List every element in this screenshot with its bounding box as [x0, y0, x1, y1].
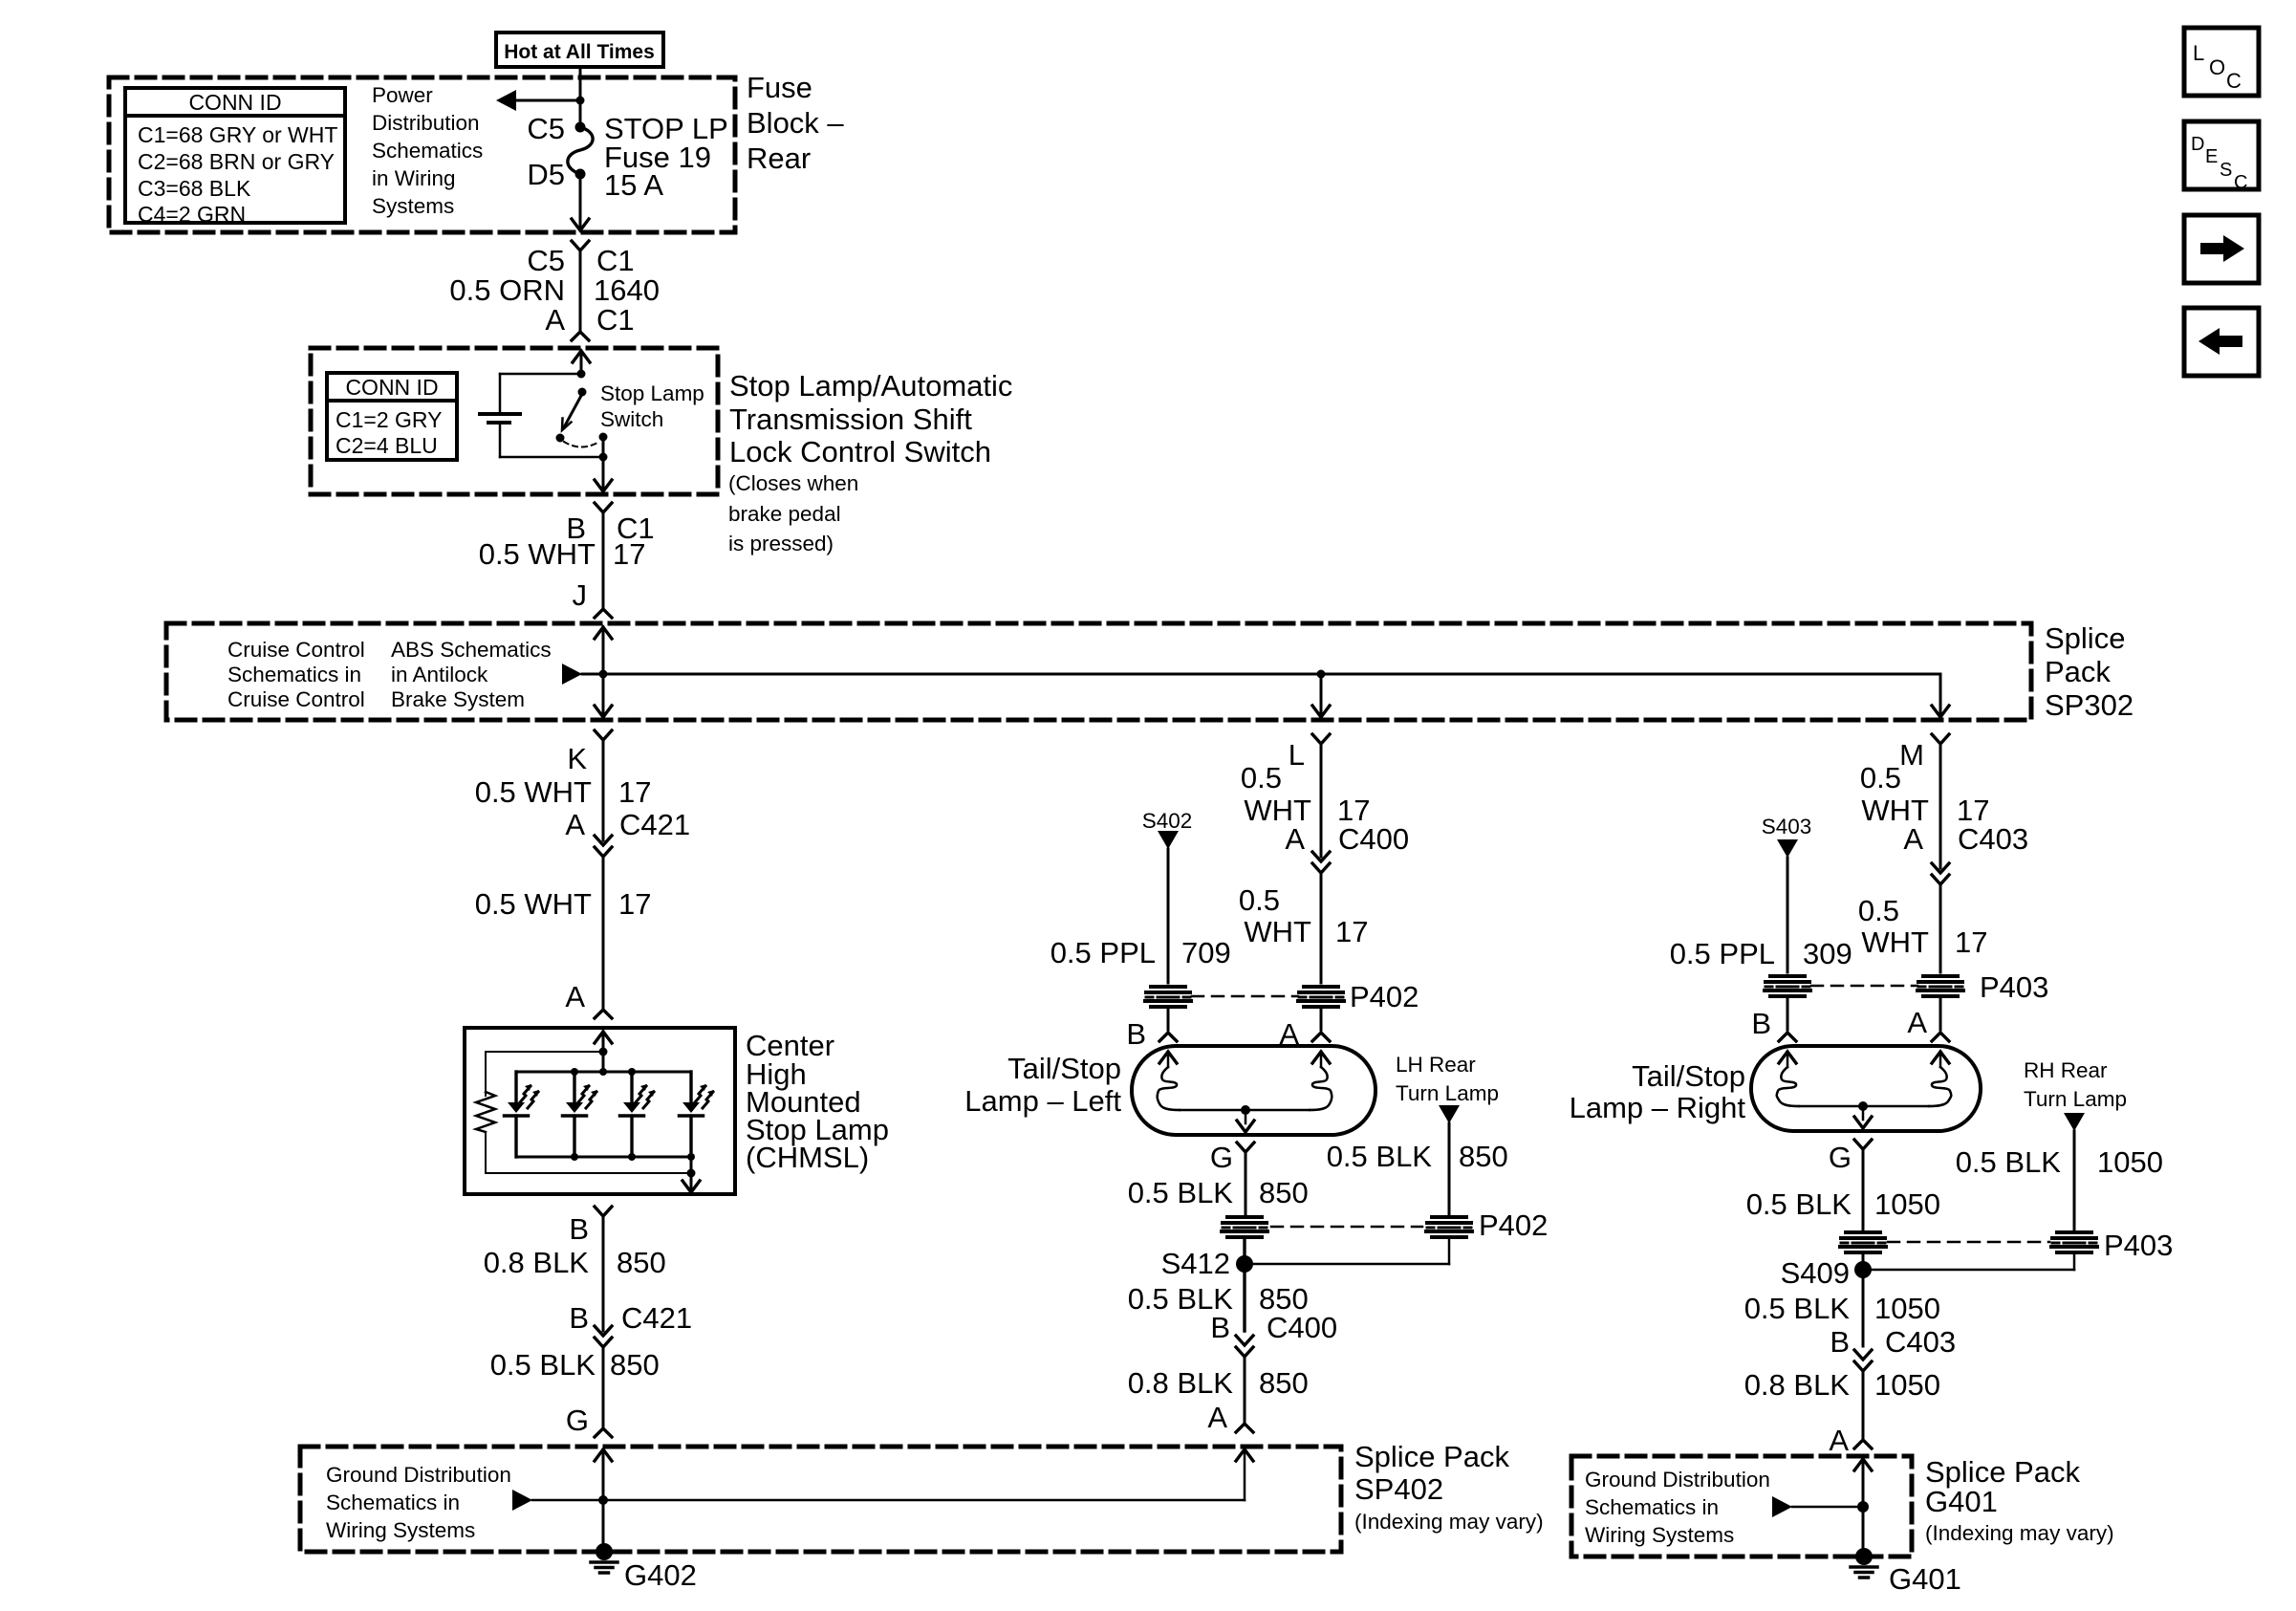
svg-text:B: B	[1751, 1007, 1771, 1040]
svg-text:0.8 BLK: 0.8 BLK	[1128, 1366, 1234, 1400]
svg-text:Switch: Switch	[600, 407, 663, 431]
svg-text:SP402: SP402	[1354, 1472, 1443, 1506]
svg-text:K: K	[567, 742, 587, 775]
svg-text:G402: G402	[624, 1558, 697, 1592]
svg-text:Cruise Control: Cruise Control	[227, 638, 365, 662]
svg-text:309: 309	[1803, 937, 1852, 970]
svg-text:0.8 BLK: 0.8 BLK	[484, 1246, 590, 1279]
svg-text:0.5 PPL: 0.5 PPL	[1051, 936, 1156, 969]
svg-text:C403: C403	[1958, 822, 2028, 856]
svg-text:17: 17	[613, 537, 645, 571]
svg-text:Cruise Control: Cruise Control	[227, 687, 365, 711]
svg-text:CONN ID: CONN ID	[188, 90, 281, 115]
svg-text:Schematics in: Schematics in	[326, 1491, 460, 1514]
svg-text:LH Rear: LH Rear	[1396, 1053, 1476, 1077]
svg-text:ABS Schematics: ABS Schematics	[391, 638, 552, 662]
svg-text:(Indexing may vary): (Indexing may vary)	[1925, 1521, 2114, 1545]
svg-text:C400: C400	[1267, 1311, 1337, 1344]
svg-text:A: A	[1829, 1424, 1849, 1457]
svg-text:C3=68 BLK: C3=68 BLK	[138, 176, 251, 201]
svg-text:C1=68 GRY or WHT: C1=68 GRY or WHT	[138, 122, 337, 147]
svg-text:C1: C1	[596, 244, 635, 277]
svg-text:Schematics in: Schematics in	[227, 663, 361, 686]
svg-text:C4=2 GRN: C4=2 GRN	[138, 202, 246, 227]
svg-text:0.5 ORN: 0.5 ORN	[449, 273, 565, 307]
svg-text:S412: S412	[1161, 1247, 1230, 1280]
svg-text:1050: 1050	[1874, 1368, 1940, 1402]
svg-text:C421: C421	[619, 808, 690, 841]
svg-text:Fuse: Fuse	[747, 71, 812, 104]
svg-text:D5: D5	[527, 158, 565, 191]
svg-text:G401: G401	[1925, 1485, 1998, 1518]
svg-text:Lock Control Switch: Lock Control Switch	[729, 435, 991, 468]
svg-text:B: B	[1126, 1017, 1146, 1051]
svg-text:Splice Pack: Splice Pack	[1925, 1455, 2080, 1489]
svg-text:C1=2 GRY: C1=2 GRY	[336, 407, 442, 432]
svg-text:0.5 WHT: 0.5 WHT	[475, 775, 592, 809]
svg-text:17: 17	[618, 887, 651, 921]
svg-text:0.8 BLK: 0.8 BLK	[1744, 1368, 1851, 1402]
svg-text:WHT: WHT	[1244, 915, 1311, 948]
svg-text:15 A: 15 A	[604, 168, 663, 202]
svg-text:C2=4 BLU: C2=4 BLU	[336, 433, 438, 458]
svg-text:Schematics in: Schematics in	[1585, 1495, 1719, 1519]
svg-text:C: C	[2234, 172, 2247, 193]
svg-text:Splice Pack: Splice Pack	[1354, 1440, 1509, 1473]
svg-text:brake pedal: brake pedal	[728, 502, 841, 526]
svg-text:(Indexing may vary): (Indexing may vary)	[1354, 1510, 1544, 1534]
svg-text:C400: C400	[1338, 822, 1409, 856]
svg-text:M: M	[1899, 738, 1924, 772]
svg-text:CONN ID: CONN ID	[345, 375, 438, 400]
svg-text:G: G	[566, 1404, 589, 1437]
svg-text:Rear: Rear	[747, 142, 811, 175]
svg-text:0.5: 0.5	[1860, 761, 1901, 795]
svg-text:P402: P402	[1350, 980, 1419, 1013]
svg-text:C: C	[2226, 69, 2242, 93]
svg-text:850: 850	[1459, 1140, 1508, 1173]
svg-text:(CHMSL): (CHMSL)	[746, 1141, 869, 1174]
svg-text:Splice: Splice	[2045, 621, 2125, 655]
svg-text:S402: S402	[1142, 809, 1193, 833]
svg-text:G: G	[1829, 1141, 1852, 1174]
svg-text:B: B	[1210, 1311, 1230, 1344]
svg-text:Brake System: Brake System	[391, 687, 525, 711]
svg-text:Tail/Stop: Tail/Stop	[1007, 1052, 1121, 1085]
svg-text:O: O	[2209, 55, 2225, 79]
svg-text:Wiring Systems: Wiring Systems	[1585, 1523, 1734, 1547]
svg-text:SP302: SP302	[2045, 688, 2134, 722]
svg-text:Turn Lamp: Turn Lamp	[2024, 1087, 2127, 1111]
svg-text:1050: 1050	[2097, 1145, 2163, 1179]
svg-text:0.5 PPL: 0.5 PPL	[1670, 937, 1775, 970]
svg-text:Wiring Systems: Wiring Systems	[326, 1518, 475, 1542]
svg-text:0.5: 0.5	[1241, 761, 1282, 795]
svg-text:0.5 BLK: 0.5 BLK	[1128, 1176, 1234, 1209]
svg-text:in Wiring: in Wiring	[372, 166, 456, 190]
svg-text:G401: G401	[1889, 1562, 1961, 1596]
svg-text:Stop Lamp: Stop Lamp	[600, 381, 704, 405]
svg-text:Systems: Systems	[372, 194, 454, 218]
svg-text:WHT: WHT	[1861, 925, 1929, 959]
svg-text:is pressed): is pressed)	[728, 532, 834, 555]
svg-text:A: A	[1907, 1006, 1927, 1039]
svg-text:P403: P403	[2104, 1229, 2173, 1262]
svg-text:S: S	[2220, 160, 2232, 181]
svg-text:1640: 1640	[594, 273, 660, 307]
svg-text:S409: S409	[1781, 1256, 1850, 1290]
svg-text:Lamp – Left: Lamp – Left	[964, 1084, 1121, 1118]
svg-text:0.5: 0.5	[1239, 883, 1280, 917]
svg-text:C1: C1	[596, 303, 635, 337]
svg-text:A: A	[565, 980, 585, 1013]
svg-text:1050: 1050	[1874, 1292, 1940, 1325]
svg-text:Power: Power	[372, 83, 433, 107]
svg-text:C2=68 BRN or GRY: C2=68 BRN or GRY	[138, 149, 335, 174]
svg-text:Pack: Pack	[2045, 655, 2111, 688]
svg-text:A: A	[545, 303, 565, 337]
svg-text:0.5 WHT: 0.5 WHT	[479, 537, 596, 571]
svg-text:Distribution: Distribution	[372, 111, 480, 135]
svg-text:17: 17	[1955, 925, 1987, 959]
svg-text:850: 850	[610, 1348, 660, 1382]
svg-text:17: 17	[618, 775, 651, 809]
svg-text:Tail/Stop: Tail/Stop	[1632, 1059, 1745, 1093]
svg-text:0.5 BLK: 0.5 BLK	[1746, 1187, 1852, 1221]
svg-text:L: L	[1289, 738, 1305, 772]
svg-text:Block –: Block –	[747, 106, 844, 140]
svg-text:Transmission Shift: Transmission Shift	[729, 403, 972, 436]
svg-text:G: G	[1210, 1141, 1233, 1174]
svg-text:D: D	[2191, 134, 2204, 155]
svg-text:E: E	[2205, 146, 2218, 167]
svg-text:Ground Distribution: Ground Distribution	[1585, 1468, 1770, 1491]
svg-text:0.5 BLK: 0.5 BLK	[490, 1348, 596, 1382]
svg-text:C5: C5	[527, 112, 565, 145]
svg-text:17: 17	[1335, 915, 1368, 948]
svg-text:B: B	[1830, 1325, 1850, 1359]
svg-text:A: A	[1285, 822, 1305, 856]
svg-text:Ground Distribution: Ground Distribution	[326, 1463, 511, 1487]
svg-text:Hot at All Times: Hot at All Times	[504, 41, 655, 63]
svg-text:850: 850	[617, 1246, 666, 1279]
svg-text:Lamp – Right: Lamp – Right	[1570, 1091, 1746, 1124]
svg-text:L: L	[2193, 41, 2204, 65]
svg-text:(Closes when: (Closes when	[728, 471, 858, 495]
svg-text:S403: S403	[1762, 815, 1812, 838]
svg-text:A: A	[1903, 822, 1923, 856]
svg-text:C403: C403	[1885, 1325, 1956, 1359]
svg-text:0.5: 0.5	[1858, 894, 1899, 927]
svg-text:709: 709	[1181, 936, 1231, 969]
svg-text:1050: 1050	[1874, 1187, 1940, 1221]
svg-text:0.5 WHT: 0.5 WHT	[475, 887, 592, 921]
svg-text:A: A	[565, 808, 585, 841]
svg-text:B: B	[569, 1212, 589, 1246]
svg-text:C5: C5	[527, 244, 565, 277]
svg-text:in Antilock: in Antilock	[391, 663, 488, 686]
svg-text:B: B	[569, 1301, 589, 1335]
svg-text:0.5 BLK: 0.5 BLK	[1327, 1140, 1433, 1173]
svg-text:A: A	[1207, 1401, 1227, 1434]
svg-text:P402: P402	[1479, 1208, 1548, 1242]
svg-text:RH Rear: RH Rear	[2024, 1058, 2108, 1082]
svg-text:0.5 BLK: 0.5 BLK	[1956, 1145, 2062, 1179]
svg-text:850: 850	[1259, 1176, 1309, 1209]
svg-text:Stop Lamp/Automatic: Stop Lamp/Automatic	[729, 369, 1012, 403]
svg-text:C421: C421	[621, 1301, 692, 1335]
svg-text:Schematics: Schematics	[372, 139, 483, 163]
svg-text:P403: P403	[1980, 970, 2048, 1004]
svg-text:850: 850	[1259, 1366, 1309, 1400]
svg-text:Turn Lamp: Turn Lamp	[1396, 1081, 1499, 1105]
svg-text:J: J	[573, 578, 588, 612]
svg-text:0.5 BLK: 0.5 BLK	[1744, 1292, 1851, 1325]
